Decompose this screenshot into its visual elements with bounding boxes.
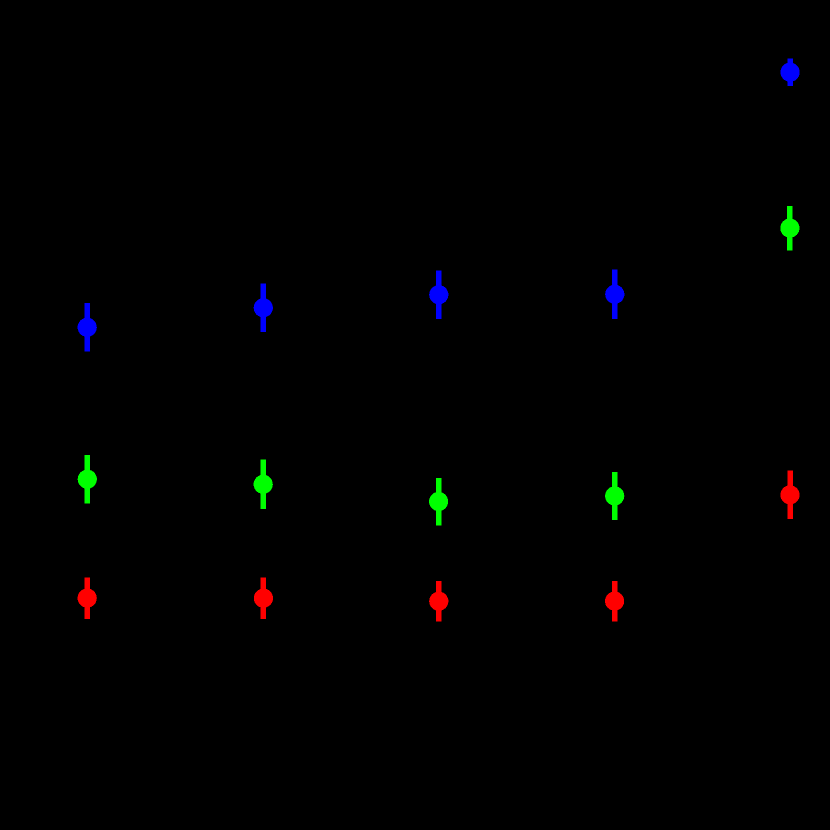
- red data point R5 with error bar: [780, 471, 799, 520]
- blue data point B5 with error bar: [781, 59, 800, 86]
- green data point G1 with error bar: [78, 455, 97, 504]
- blue data point B2 with error bar: [254, 284, 273, 332]
- green data point G5 with error bar: [780, 206, 799, 250]
- blue data point B1 with error bar: [78, 303, 97, 352]
- green data point G4 with error bar: [605, 472, 624, 520]
- blue data point B3 with error bar: [429, 270, 448, 318]
- red data point R3 with error bar: [429, 581, 448, 622]
- red data point R2 with error bar: [254, 578, 273, 619]
- red data point R1 with error bar: [78, 578, 97, 619]
- green data point G3 with error bar: [429, 478, 448, 526]
- blue data point B4 with error bar: [605, 270, 624, 319]
- green data point G2 with error bar: [254, 460, 273, 510]
- red data point R4 with error bar: [605, 581, 624, 622]
